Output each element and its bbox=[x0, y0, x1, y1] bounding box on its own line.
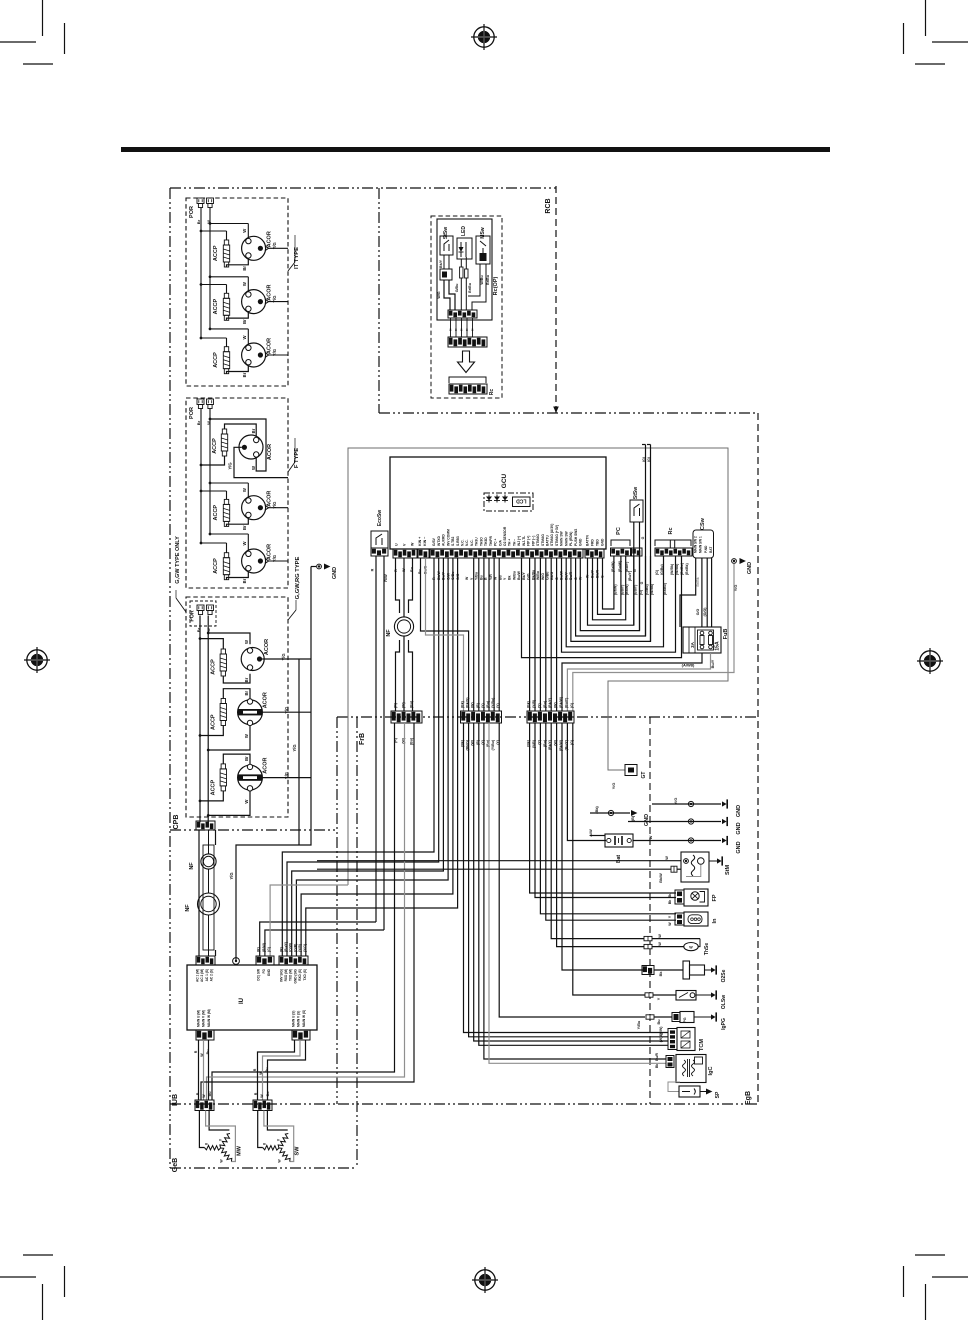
connector IUB-2 bbox=[253, 1100, 272, 1111]
svg-text:STMAG (+3V): STMAG (+3V) bbox=[555, 525, 559, 546]
fuse ACCP bbox=[213, 499, 230, 526]
svg-text:(R): (R) bbox=[257, 947, 261, 952]
svg-text:(Bk/Y): (Bk/Y) bbox=[548, 698, 552, 708]
svg-text:CPB: CPB bbox=[173, 815, 180, 830]
svg-text:EgB: EgB bbox=[745, 1091, 752, 1105]
svg-text:MAIN SW 2: MAIN SW 2 bbox=[694, 536, 698, 553]
svg-text:(A/W8): (A/W8) bbox=[682, 663, 695, 668]
wire Br feed via ACCP bbox=[199, 689, 250, 737]
wire FrB-2 to IgPG bbox=[499, 723, 645, 1017]
svg-text:Bu: Bu bbox=[479, 575, 483, 580]
svg-text:PC: PC bbox=[616, 527, 622, 535]
svg-text:P.NO: P.NO bbox=[704, 545, 708, 553]
svg-text:GND: GND bbox=[736, 841, 742, 853]
svg-text:8: 8 bbox=[450, 328, 452, 332]
svg-text:ACCP: ACCP bbox=[211, 714, 217, 730]
svg-text:GCU: GCU bbox=[501, 473, 508, 488]
box RCB inner solid bbox=[437, 219, 492, 320]
wire StM Bk/W bbox=[317, 866, 681, 883]
connector FrB-2 bbox=[461, 711, 502, 723]
svg-text:(Br/W): (Br/W) bbox=[625, 585, 629, 596]
svg-text:W: W bbox=[242, 541, 247, 545]
box F TYPE bbox=[186, 398, 288, 588]
svg-text:W: W bbox=[251, 466, 256, 470]
svg-text:ACCP: ACCP bbox=[213, 558, 219, 574]
svg-text:MSw: MSw bbox=[480, 227, 486, 239]
svg-text:(Bu/W): (Bu/W) bbox=[618, 561, 622, 572]
svg-text:NF: NF bbox=[386, 629, 392, 637]
wire ACCP to ACOR bbox=[227, 366, 249, 374]
wires IU to IUB right bbox=[253, 1040, 306, 1100]
svg-text:Bk/Y: Bk/Y bbox=[439, 259, 443, 268]
svg-text:(W/Bu): (W/Bu) bbox=[675, 564, 679, 575]
svg-text:PL (RDN): PL (RDN) bbox=[569, 532, 573, 546]
wire labels IU top bbox=[257, 942, 307, 952]
svg-text:Br: Br bbox=[242, 578, 247, 583]
fuse 15A bbox=[709, 631, 713, 649]
wire Br feed F1 bbox=[200, 456, 225, 466]
wires FrB-2 to TCM/IgC bbox=[464, 723, 669, 1063]
crop marks top-right bbox=[904, 0, 968, 64]
wires IU to IUB left bbox=[194, 1040, 210, 1100]
svg-text:TCM: TCM bbox=[699, 1039, 705, 1051]
wire ACCP to ACOR bbox=[227, 312, 249, 320]
svg-text:(Br/Bu): (Br/Bu) bbox=[680, 563, 684, 575]
noise filter NF2 bbox=[185, 893, 220, 915]
svg-text:Y/G: Y/G bbox=[281, 653, 286, 660]
svg-text:GND: GND bbox=[747, 562, 753, 574]
svg-text:BAT: BAT bbox=[709, 547, 713, 553]
wire Y/G pigtail bbox=[269, 295, 288, 302]
svg-text:3A: 3A bbox=[690, 641, 695, 648]
svg-text:Br: Br bbox=[244, 677, 249, 682]
svg-text:NF: NF bbox=[185, 904, 191, 912]
svg-text:ACCP: ACCP bbox=[211, 779, 217, 795]
fuse ACCP bbox=[211, 764, 227, 795]
svg-text:Bk: Bk bbox=[668, 900, 672, 905]
svg-text:(R): (R) bbox=[476, 703, 480, 708]
svg-text:Bu: Bu bbox=[265, 1068, 269, 1073]
wire W feed bbox=[207, 726, 250, 752]
wire ACCP to ACOR bbox=[227, 518, 249, 526]
noise filter NF main bbox=[386, 558, 414, 711]
svg-text:W: W bbox=[658, 942, 662, 946]
svg-text:Y/G: Y/G bbox=[272, 502, 277, 509]
svg-text:(W): (W) bbox=[659, 1037, 663, 1042]
connector ACOR slot type bbox=[238, 756, 269, 804]
svg-text:Y/Bu: Y/Bu bbox=[475, 572, 479, 580]
svg-text:GND: GND bbox=[601, 538, 605, 546]
wire Br feed to ACCP bbox=[201, 543, 227, 553]
svg-text:Bk/W: Bk/W bbox=[659, 873, 663, 883]
wire EcoSw R/W bbox=[384, 556, 388, 930]
svg-text:StM: StM bbox=[725, 865, 731, 876]
svg-text:U: U bbox=[395, 543, 399, 546]
wire Y/G out bbox=[262, 707, 311, 714]
wire Br feed via ACCP bbox=[199, 754, 250, 802]
svg-text:W/G: W/G bbox=[541, 573, 545, 580]
label G,GW TYPE ONLY bbox=[175, 536, 186, 612]
switch EcoSw bbox=[371, 510, 388, 556]
svg-text:GND: GND bbox=[736, 805, 742, 817]
svg-text:GND: GND bbox=[644, 814, 650, 826]
connector IU-bot1 bbox=[196, 1030, 214, 1040]
GCU wire labels bbox=[394, 565, 605, 580]
connector ACOR slot type bbox=[238, 691, 269, 739]
ground arrow GND-B bbox=[590, 806, 650, 827]
svg-text:Y/G: Y/G bbox=[284, 707, 289, 714]
oxygen sensor O2Se bbox=[642, 961, 727, 982]
wire Y/G pigtail bbox=[269, 242, 288, 249]
svg-text:RCB: RCB bbox=[545, 198, 552, 213]
svg-text:W/Bu: W/Bu bbox=[480, 275, 484, 284]
ECU box GCU bbox=[390, 457, 606, 549]
svg-text:FuB: FuB bbox=[723, 629, 729, 640]
boundary right edge bbox=[757, 413, 759, 1104]
svg-text:StSw: StSw bbox=[633, 487, 639, 499]
wire Br bus exit (G box) bbox=[199, 801, 201, 822]
svg-text:INV SIG): INV SIG) bbox=[279, 969, 283, 982]
svg-text:8: 8 bbox=[461, 328, 463, 332]
fuse ACCP F1 bbox=[212, 429, 228, 456]
terminal IU ground bbox=[233, 958, 240, 965]
svg-text:(Bu/Y): (Bu/Y) bbox=[620, 585, 624, 595]
svg-text:G,GW TYPE ONLY: G,GW TYPE ONLY bbox=[175, 536, 181, 584]
svg-text:ACOR: ACOR bbox=[263, 692, 269, 708]
svg-text:(G/Bu): (G/Bu) bbox=[660, 564, 664, 575]
svg-text:O/A: O/A bbox=[498, 540, 502, 546]
svg-text:Br: Br bbox=[242, 319, 247, 324]
svg-text:Y/G: Y/G bbox=[272, 349, 277, 356]
wires CSw to FuB bbox=[680, 558, 712, 627]
svg-text:Br: Br bbox=[244, 691, 249, 696]
svg-text:G/SV: G/SV bbox=[432, 537, 436, 546]
svg-text:(G): (G) bbox=[570, 703, 574, 708]
svg-text:Br: Br bbox=[251, 428, 256, 433]
box Rc(OP) dashed bbox=[431, 216, 502, 398]
svg-text:(G): (G) bbox=[655, 570, 659, 575]
svg-text:ACOR: ACOR bbox=[267, 444, 273, 460]
registration mark left bbox=[24, 647, 50, 673]
svg-text:AC 2 (S): AC 2 (S) bbox=[210, 969, 214, 981]
svg-text:W/G: W/G bbox=[437, 291, 441, 298]
svg-text:(Y/Bu): (Y/Bu) bbox=[491, 740, 495, 750]
wire Y/G out G1 bbox=[262, 653, 311, 660]
svg-text:W: W bbox=[244, 640, 249, 644]
switch StSw bbox=[440, 227, 453, 255]
svg-text:FtP (+): FtP (+) bbox=[527, 536, 531, 546]
wire Br feed to ACCP bbox=[201, 491, 227, 499]
connector IUB-1 bbox=[195, 1100, 214, 1111]
svg-text:(G/O): (G/O) bbox=[703, 608, 707, 617]
wire StM W bbox=[317, 856, 681, 861]
wire Y/G pigtail bbox=[269, 349, 288, 356]
svg-text:(Bu): (Bu) bbox=[543, 701, 547, 708]
connector ACOR bbox=[242, 541, 273, 583]
spark plug SP bbox=[679, 1086, 721, 1098]
svg-text:G,GW,RG TYPE: G,GW,RG TYPE bbox=[295, 556, 301, 599]
connector ACOR bbox=[242, 282, 273, 324]
svg-text:N.C.: N.C. bbox=[470, 539, 474, 546]
svg-text:ACOR: ACOR bbox=[264, 639, 270, 655]
svg-text:(Bk/W): (Bk/W) bbox=[559, 697, 563, 708]
GCU pin labels bbox=[395, 524, 605, 546]
svg-text:Br/Bu: Br/Bu bbox=[486, 275, 490, 285]
svg-text:ACCP: ACCP bbox=[213, 245, 219, 261]
svg-text:(W): (W) bbox=[554, 702, 558, 708]
svg-text:(Br/W): (Br/W) bbox=[613, 585, 617, 596]
svg-text:Br: Br bbox=[242, 525, 247, 530]
boundary IUB right edge bbox=[356, 717, 358, 1168]
ground GND (CPB) bbox=[311, 564, 338, 580]
wire Y/G out bbox=[262, 772, 311, 779]
switch MSw bbox=[476, 227, 490, 264]
svg-text:MW: MW bbox=[236, 1145, 242, 1156]
svg-text:8: 8 bbox=[466, 328, 468, 332]
svg-text:R: R bbox=[194, 1050, 198, 1053]
svg-text:(Br/W): (Br/W) bbox=[611, 562, 615, 573]
resistor RCB 2 bbox=[465, 257, 472, 293]
svg-text:Y: Y bbox=[657, 997, 661, 1000]
wire W feed unit bbox=[200, 482, 249, 498]
svg-text:LCD: LCD bbox=[516, 498, 527, 504]
svg-text:(R): (R) bbox=[279, 947, 283, 952]
wire IgC to SP bbox=[668, 1082, 680, 1092]
svg-text:Rc(OP): Rc(OP) bbox=[493, 277, 499, 296]
svg-text:ACCP: ACCP bbox=[212, 438, 218, 454]
svg-text:Bu: Bu bbox=[206, 1050, 210, 1055]
svg-text:G: G bbox=[640, 581, 644, 584]
svg-text:STMAG (A/3V): STMAG (A/3V) bbox=[550, 524, 554, 546]
svg-text:Y/G: Y/G bbox=[229, 872, 234, 879]
registration mark right bbox=[917, 648, 943, 674]
svg-text:STMAG: STMAG bbox=[541, 534, 545, 546]
switch StSw bbox=[628, 487, 645, 631]
svg-text:W: W bbox=[242, 488, 247, 492]
fuse ACCP bbox=[213, 553, 230, 580]
svg-text:KIN −: KIN − bbox=[423, 537, 427, 546]
svg-text:W: W bbox=[202, 1094, 206, 1098]
connector ACOR bbox=[242, 335, 273, 377]
svg-text:(Y/Bu): (Y/Bu) bbox=[491, 698, 495, 708]
svg-text:POR: POR bbox=[189, 206, 195, 218]
connector IU-bot2 bbox=[292, 1030, 310, 1040]
wire Br feed to ACCP bbox=[201, 285, 227, 294]
svg-text:Br: Br bbox=[242, 266, 247, 271]
svg-text:Br/Bk: Br/Bk bbox=[696, 577, 700, 586]
svg-text:(Bk): (Bk) bbox=[461, 701, 465, 708]
wire W bus exit (G box) bbox=[207, 815, 209, 822]
switch CSw bbox=[693, 517, 714, 558]
display LCD bbox=[484, 493, 533, 511]
svg-text:TH3U: TH3U bbox=[475, 537, 479, 546]
boundary CPB/RCB top edge bbox=[170, 187, 556, 189]
connector GCU-main bbox=[430, 549, 583, 558]
svg-text:Y/G: Y/G bbox=[284, 772, 289, 779]
wire EcoSw to IU 2 bbox=[265, 930, 384, 956]
wire Y/G pigtail bbox=[269, 555, 288, 562]
wire ACCP to ACOR G1 bbox=[223, 674, 250, 683]
svg-text:TXD (M): TXD (M) bbox=[289, 969, 293, 981]
wire W feed bbox=[207, 791, 250, 817]
svg-text:G: G bbox=[633, 569, 637, 572]
svg-text:(Bk): (Bk) bbox=[527, 701, 531, 708]
wire Br feed to ACCP bbox=[201, 338, 227, 347]
boundary RCB left edge bbox=[378, 188, 380, 413]
svg-text:TH −: TH − bbox=[512, 539, 516, 546]
wire Br bus (G) bbox=[199, 616, 201, 802]
diode block RCB bbox=[439, 255, 452, 280]
svg-text:GeB: GeB bbox=[172, 1158, 179, 1172]
svg-text:KIN +: KIN + bbox=[418, 537, 422, 546]
svg-text:(G): (G) bbox=[642, 457, 646, 462]
svg-text:(O/W): (O/W) bbox=[289, 943, 293, 952]
wire Y/G to IU terminal bbox=[229, 567, 311, 962]
svg-text:FRD: FRD bbox=[591, 539, 595, 546]
svg-text:Y/G: Y/G bbox=[228, 462, 233, 469]
wire Y/G pigtail bbox=[269, 502, 288, 509]
svg-text:LED: LED bbox=[461, 226, 467, 236]
wire labels IUB bbox=[196, 1092, 270, 1098]
svg-text:GND (SIG: GND (SIG bbox=[293, 968, 297, 983]
connector Rc bbox=[449, 377, 495, 395]
svg-text:INJ-TL: INJ-TL bbox=[522, 536, 526, 546]
svg-text:GND: GND bbox=[736, 822, 742, 834]
svg-text:R: R bbox=[253, 1068, 257, 1071]
wire KIN jog 2 bbox=[426, 558, 464, 711]
svg-text:R: R bbox=[254, 1092, 258, 1095]
svg-text:IU: IU bbox=[239, 998, 245, 1004]
svg-text:INV COMM: INV COMM bbox=[446, 529, 450, 546]
svg-text:(W/Bk): (W/Bk) bbox=[670, 564, 674, 575]
svg-text:DC) SW: DC) SW bbox=[257, 969, 261, 981]
svg-text:Br: Br bbox=[196, 219, 201, 224]
fuse ACCP bbox=[213, 293, 230, 320]
label G,GW,RG TYPE bbox=[288, 556, 301, 620]
noise filter NF1 bbox=[189, 854, 216, 870]
svg-text:Bk: Bk bbox=[655, 1064, 659, 1068]
connector strip RCB-B bbox=[448, 337, 487, 347]
svg-text:MAIN V (S): MAIN V (S) bbox=[297, 1011, 301, 1027]
fuse box FuB bbox=[683, 627, 729, 653]
svg-text:BATTU: BATTU bbox=[545, 534, 549, 546]
wire EcoSw to IU 1 bbox=[260, 922, 376, 956]
connector GCU-BATT bbox=[585, 549, 604, 558]
box G,GW,RG TYPE bbox=[186, 597, 288, 817]
svg-text:ACCP: ACCP bbox=[213, 298, 219, 314]
starter motor StM bbox=[681, 852, 731, 882]
harness outline bbox=[348, 448, 728, 885]
resistor RCB 1 bbox=[455, 259, 463, 292]
page rule bbox=[121, 147, 830, 152]
svg-text:TH3D: TH3D bbox=[484, 537, 488, 546]
connector GCU-UVW bbox=[393, 549, 417, 558]
svg-text:(Bu/Y): (Bu/Y) bbox=[284, 942, 288, 952]
wires FrB-1 to IUB bbox=[201, 723, 414, 1100]
wire Br feed G1 bbox=[199, 637, 224, 649]
ground row GND-C bbox=[628, 815, 742, 834]
svg-text:(O/R): (O/R) bbox=[293, 944, 297, 952]
svg-text:AUXRD: AUXRD bbox=[442, 534, 446, 546]
wire ACCP to ACOR bbox=[227, 259, 249, 267]
svg-text:O2 SENSOR: O2 SENSOR bbox=[503, 526, 507, 546]
svg-text:W: W bbox=[658, 934, 662, 938]
svg-text:15A: 15A bbox=[715, 641, 721, 651]
connector CPB-IUB bbox=[196, 821, 215, 830]
svg-text:(Y/R): (Y/R) bbox=[532, 700, 536, 708]
connector IU-top3 bbox=[279, 956, 308, 965]
oil level switch OLSw bbox=[645, 990, 727, 1009]
svg-text:(Bk/G): (Bk/G) bbox=[466, 698, 470, 709]
wire Y/G ground loop bbox=[573, 564, 734, 712]
svg-text:IUB: IUB bbox=[172, 1094, 179, 1106]
svg-text:Bu/W: Bu/W bbox=[517, 570, 521, 580]
svg-text:MAIN W (M): MAIN W (M) bbox=[207, 1009, 211, 1027]
connector IU-top2 bbox=[256, 956, 274, 965]
inverter unit IU bbox=[187, 965, 317, 1030]
svg-text:W: W bbox=[649, 835, 653, 839]
connector FrB-3 bbox=[527, 711, 574, 723]
boundary GeB bottom bbox=[170, 1167, 357, 1169]
connector ACOR F1 bbox=[239, 428, 273, 470]
svg-text:TH3O: TH3O bbox=[479, 537, 483, 546]
svg-text:(W): (W) bbox=[402, 702, 406, 708]
wire KIN jog 1 bbox=[421, 558, 469, 711]
svg-text:W/Bu: W/Bu bbox=[536, 571, 540, 580]
svg-text:TBD: TBD bbox=[596, 539, 600, 546]
svg-text:G: G bbox=[641, 536, 645, 539]
svg-text:STMAG: STMAG bbox=[536, 534, 540, 546]
svg-text:In: In bbox=[712, 918, 718, 924]
svg-text:G/Bu: G/Bu bbox=[455, 284, 459, 293]
crop marks bottom-left bbox=[0, 1255, 65, 1320]
svg-text:(W): (W) bbox=[471, 702, 475, 708]
svg-text:GT: GT bbox=[641, 772, 647, 779]
wire fuse out Bu/Y bbox=[567, 653, 715, 711]
svg-text:(Bk): (Bk) bbox=[595, 806, 599, 814]
svg-text:N.C.: N.C. bbox=[465, 539, 469, 546]
svg-text:(R/W): (R/W) bbox=[262, 943, 266, 952]
svg-text:Rc: Rc bbox=[668, 527, 674, 534]
svg-text:ACCP: ACCP bbox=[211, 659, 217, 675]
boundary RCB bottom / main top bbox=[379, 412, 758, 414]
svg-text:IgC: IgC bbox=[708, 1067, 714, 1076]
svg-text:FP: FP bbox=[712, 894, 718, 901]
boundary CPB bottom bbox=[170, 829, 337, 831]
crop marks top-left bbox=[0, 0, 65, 64]
svg-text:SP: SP bbox=[715, 1091, 721, 1098]
svg-text:Br: Br bbox=[196, 420, 201, 425]
svg-text:W: W bbox=[259, 1071, 263, 1075]
injector In bbox=[668, 912, 718, 926]
wire W feed unit bbox=[200, 533, 249, 551]
svg-text:Y/G: Y/G bbox=[674, 798, 678, 805]
ground GND right bbox=[732, 558, 753, 591]
svg-text:GND: GND bbox=[267, 968, 271, 976]
svg-text:Y/G: Y/G bbox=[272, 242, 277, 249]
wire W feed G1 bbox=[207, 632, 250, 644]
svg-text:Bu/R: Bu/R bbox=[655, 1052, 659, 1060]
crop marks bottom-right bbox=[904, 1255, 968, 1320]
diode D1 bbox=[486, 495, 492, 503]
svg-text:(Y): (Y) bbox=[537, 703, 541, 708]
svg-text:PC +: PC + bbox=[494, 539, 498, 546]
svg-text:Y/G: Y/G bbox=[272, 295, 277, 302]
wire W feed unit bbox=[200, 276, 249, 292]
svg-text:W: W bbox=[242, 335, 247, 339]
svg-text:W: W bbox=[200, 1053, 204, 1057]
svg-text:(Y/G): (Y/G) bbox=[303, 944, 307, 952]
